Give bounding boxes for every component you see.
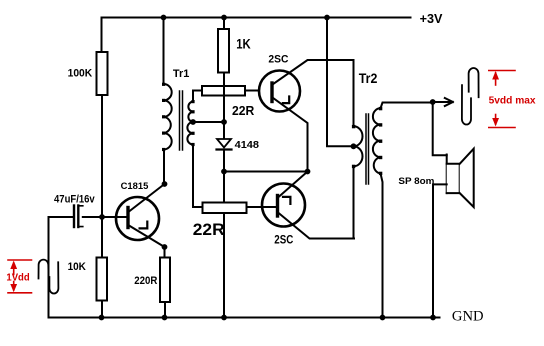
wire lower node to 22R lower [223, 172, 225, 203]
label 220R [134, 275, 157, 287]
wire Tr1 sec top stub [193, 91, 202, 102]
svg-text:22R: 22R [193, 221, 225, 239]
node Tr2 center tap [351, 143, 357, 149]
svg-text:2SC: 2SC [274, 232, 293, 246]
label SP 8om [398, 176, 434, 186]
wire Q1 emitter [273, 98, 308, 172]
red dim input bottom bar [8, 292, 32, 294]
transistor Q1 2SC [259, 71, 300, 112]
svg-text:Tr2: Tr2 [359, 70, 378, 86]
transformer Tr1 core [180, 91, 183, 150]
speaker SP 8ohm [446, 155, 448, 194]
svg-text:2SC: 2SC [268, 54, 288, 66]
node rail-Tr2 [324, 15, 330, 21]
resistor 22R upper [202, 86, 245, 96]
transistor Q3 C1815 [116, 197, 159, 240]
wire Tr2 sec top stub [381, 103, 433, 109]
label 22R lower [193, 221, 225, 239]
node bias-gnd [221, 315, 227, 321]
svg-text:22R: 22R [232, 104, 254, 118]
wire emitter to 220R [164, 247, 166, 258]
label +3V [420, 11, 443, 26]
wire Q2 collector [278, 172, 308, 198]
node input junction [99, 214, 105, 220]
wire output to speaker [433, 102, 447, 155]
transformer Tr2 secondary winding [373, 108, 381, 173]
label 1K [236, 37, 251, 52]
transformer Tr1 primary winding [164, 84, 172, 150]
arrow emitter C1815 [140, 222, 148, 229]
wire 22R lower to Q2 base [247, 206, 277, 208]
node Tr1 center tap [190, 119, 196, 125]
input waveform [39, 260, 59, 294]
label 47uF/16v [54, 193, 95, 205]
svg-text:1K: 1K [236, 37, 251, 52]
svg-text:10K: 10K [68, 261, 86, 273]
red arrow up input [13, 263, 15, 275]
wire coupling bias to Q junction [224, 171, 308, 173]
wire below 22R lower to gnd [223, 213, 225, 318]
node speaker-gnd [430, 315, 436, 321]
diode D1 4148 [217, 139, 231, 148]
resistor 22R lower [203, 203, 247, 214]
label Tr1 [173, 68, 190, 80]
label 10K [68, 261, 86, 273]
transistor Q2 2SC [262, 184, 305, 227]
wire Tr2 primary bottom to Q2 emitter [353, 166, 355, 238]
label 2SC Q1 [268, 54, 288, 66]
label 5vdd max [489, 95, 537, 106]
red dim input top bar [8, 259, 32, 261]
red arrow down output [495, 115, 497, 125]
node emitter C1815 [162, 244, 168, 250]
arrow output [433, 101, 450, 103]
node rail-Tr1 [161, 15, 167, 21]
svg-text:220R: 220R [134, 275, 157, 287]
label 100K [68, 68, 93, 80]
wire C1815 collector [129, 184, 165, 212]
wire 100K to input node [101, 95, 103, 258]
wire 10K to ground rail [101, 301, 103, 318]
svg-text:5vdd max: 5vdd max [489, 95, 537, 106]
svg-text:SP 8om: SP 8om [398, 176, 434, 186]
wire Tr2 sec bottom stub [381, 173, 383, 317]
capacitor C1 47uF/16v [73, 206, 75, 228]
wire center tap to bias node [193, 121, 224, 123]
wire Q1 collector [273, 60, 354, 85]
label 1Vdd [6, 272, 29, 283]
wire 1K down through 22R to tap node [223, 73, 225, 123]
svg-text:GND: GND [452, 308, 484, 324]
node bias lower [221, 169, 227, 175]
wire rail to 1K [223, 18, 225, 30]
svg-text:+3V: +3V [420, 11, 443, 26]
svg-text:Tr1: Tr1 [173, 68, 190, 80]
label 2SC Q2 [274, 232, 293, 246]
wire cap left lead [49, 216, 74, 218]
node 10K-gnd [99, 315, 105, 321]
label 22R upper [232, 104, 254, 118]
wire 22R to Q1 base [245, 90, 259, 92]
transformer Tr2 primary winding [354, 126, 363, 166]
node output [430, 99, 436, 105]
wire ground rail [49, 317, 440, 319]
svg-text:47uF/16v: 47uF/16v [54, 193, 95, 205]
red arrow up output [495, 73, 497, 85]
wire diode to lower node [223, 150, 225, 172]
wire tap node to diode [223, 122, 225, 139]
transformer Tr2 core [366, 114, 369, 184]
resistor 10K [97, 258, 108, 301]
output waveform [462, 68, 479, 125]
resistor 220R [160, 258, 170, 303]
wire 220R to gnd [164, 302, 166, 318]
wire Tr1 sec bottom stub [193, 145, 203, 208]
node collector C1815 [162, 181, 168, 187]
node Q junction [305, 169, 311, 175]
red dim output top bar [489, 70, 515, 72]
label C1815 [121, 181, 149, 191]
wire rail to Tr2 center tap [327, 18, 354, 147]
node rail-1K [221, 15, 227, 21]
node Tr2-gnd [380, 315, 386, 321]
svg-text:100K: 100K [68, 68, 93, 80]
node bias tap [221, 119, 227, 125]
label Tr2 [359, 70, 378, 86]
red arrow down input [13, 282, 15, 291]
wire collector to Tr1 [163, 150, 165, 185]
wire input vertical [48, 217, 50, 318]
wire rail down to 100K [101, 18, 103, 53]
wire +3V rail [102, 17, 411, 19]
label GND [452, 308, 484, 324]
resistor 1K [218, 29, 229, 73]
wire Q2 emitter [278, 213, 354, 239]
svg-text:C1815: C1815 [121, 181, 149, 191]
resistor 100K [97, 52, 108, 95]
wire rail to Tr1 primary [163, 18, 165, 85]
arrow Q1 emitter [283, 97, 289, 104]
node 220R-gnd [162, 315, 168, 321]
transformer Tr1 secondary winding [187, 102, 193, 145]
label 4148 [235, 140, 260, 151]
svg-text:1Vdd: 1Vdd [6, 272, 29, 283]
wire Q1 collector to Tr2 primary top [353, 60, 355, 126]
wire speaker to gnd [433, 184, 447, 317]
svg-text:4148: 4148 [235, 140, 260, 151]
arrow Q2 emitter [283, 197, 290, 204]
wire C1815 emitter [129, 226, 165, 248]
red dim output bottom bar [489, 127, 515, 129]
wire cap to base node [83, 216, 102, 218]
